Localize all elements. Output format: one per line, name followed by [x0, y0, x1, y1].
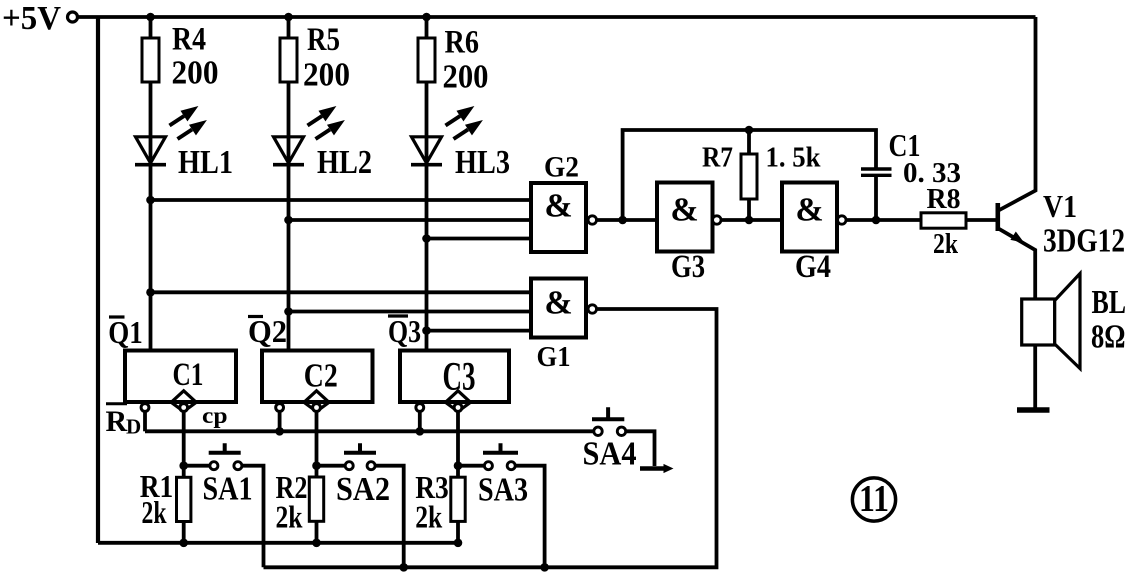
svg-text:SA3: SA3 [478, 472, 528, 509]
svg-text:SA4: SA4 [583, 436, 637, 473]
svg-text:HL2: HL2 [317, 144, 372, 181]
svg-text:11: 11 [859, 478, 889, 520]
svg-text:V1: V1 [1043, 188, 1077, 224]
svg-text:&: & [544, 285, 572, 322]
svg-text:200: 200 [172, 55, 219, 92]
svg-text:2k: 2k [415, 499, 442, 535]
svg-text:3DG12: 3DG12 [1043, 223, 1125, 260]
svg-text:C3: C3 [443, 354, 476, 399]
svg-text:Q3: Q3 [388, 313, 421, 349]
svg-text:2k: 2k [933, 229, 958, 260]
svg-text:1. 5k: 1. 5k [766, 142, 822, 174]
svg-text:D: D [126, 415, 141, 439]
svg-text:C1: C1 [173, 357, 204, 393]
svg-text:&: & [795, 192, 823, 229]
svg-text:2k: 2k [276, 499, 303, 535]
svg-text:SA2: SA2 [336, 471, 390, 508]
svg-text:200: 200 [443, 59, 489, 96]
svg-text:HL1: HL1 [178, 144, 233, 181]
svg-text:R: R [106, 405, 128, 438]
svg-text:R7: R7 [702, 142, 733, 174]
svg-text:SA1: SA1 [203, 471, 253, 508]
svg-text:G1: G1 [537, 342, 571, 373]
svg-text:R8: R8 [927, 184, 961, 215]
svg-text:R5: R5 [307, 22, 340, 58]
svg-text:R4: R4 [172, 22, 206, 58]
svg-text:&: & [544, 188, 572, 225]
svg-text:C2: C2 [304, 358, 338, 395]
svg-text:G4: G4 [795, 249, 831, 285]
svg-text:cp: cp [202, 403, 228, 428]
svg-text:G3: G3 [671, 249, 705, 285]
svg-text:&: & [670, 192, 698, 229]
svg-text:2k: 2k [142, 494, 167, 530]
svg-text:BL: BL [1092, 284, 1127, 321]
svg-text:R6: R6 [445, 25, 480, 61]
svg-text:8Ω: 8Ω [1091, 319, 1126, 356]
svg-text:+5V: +5V [2, 0, 61, 37]
svg-text:G2: G2 [544, 151, 579, 184]
svg-text:Q1: Q1 [108, 314, 143, 350]
svg-text:200: 200 [303, 57, 350, 94]
svg-text:Q2: Q2 [248, 313, 287, 349]
svg-text:HL3: HL3 [455, 144, 510, 181]
